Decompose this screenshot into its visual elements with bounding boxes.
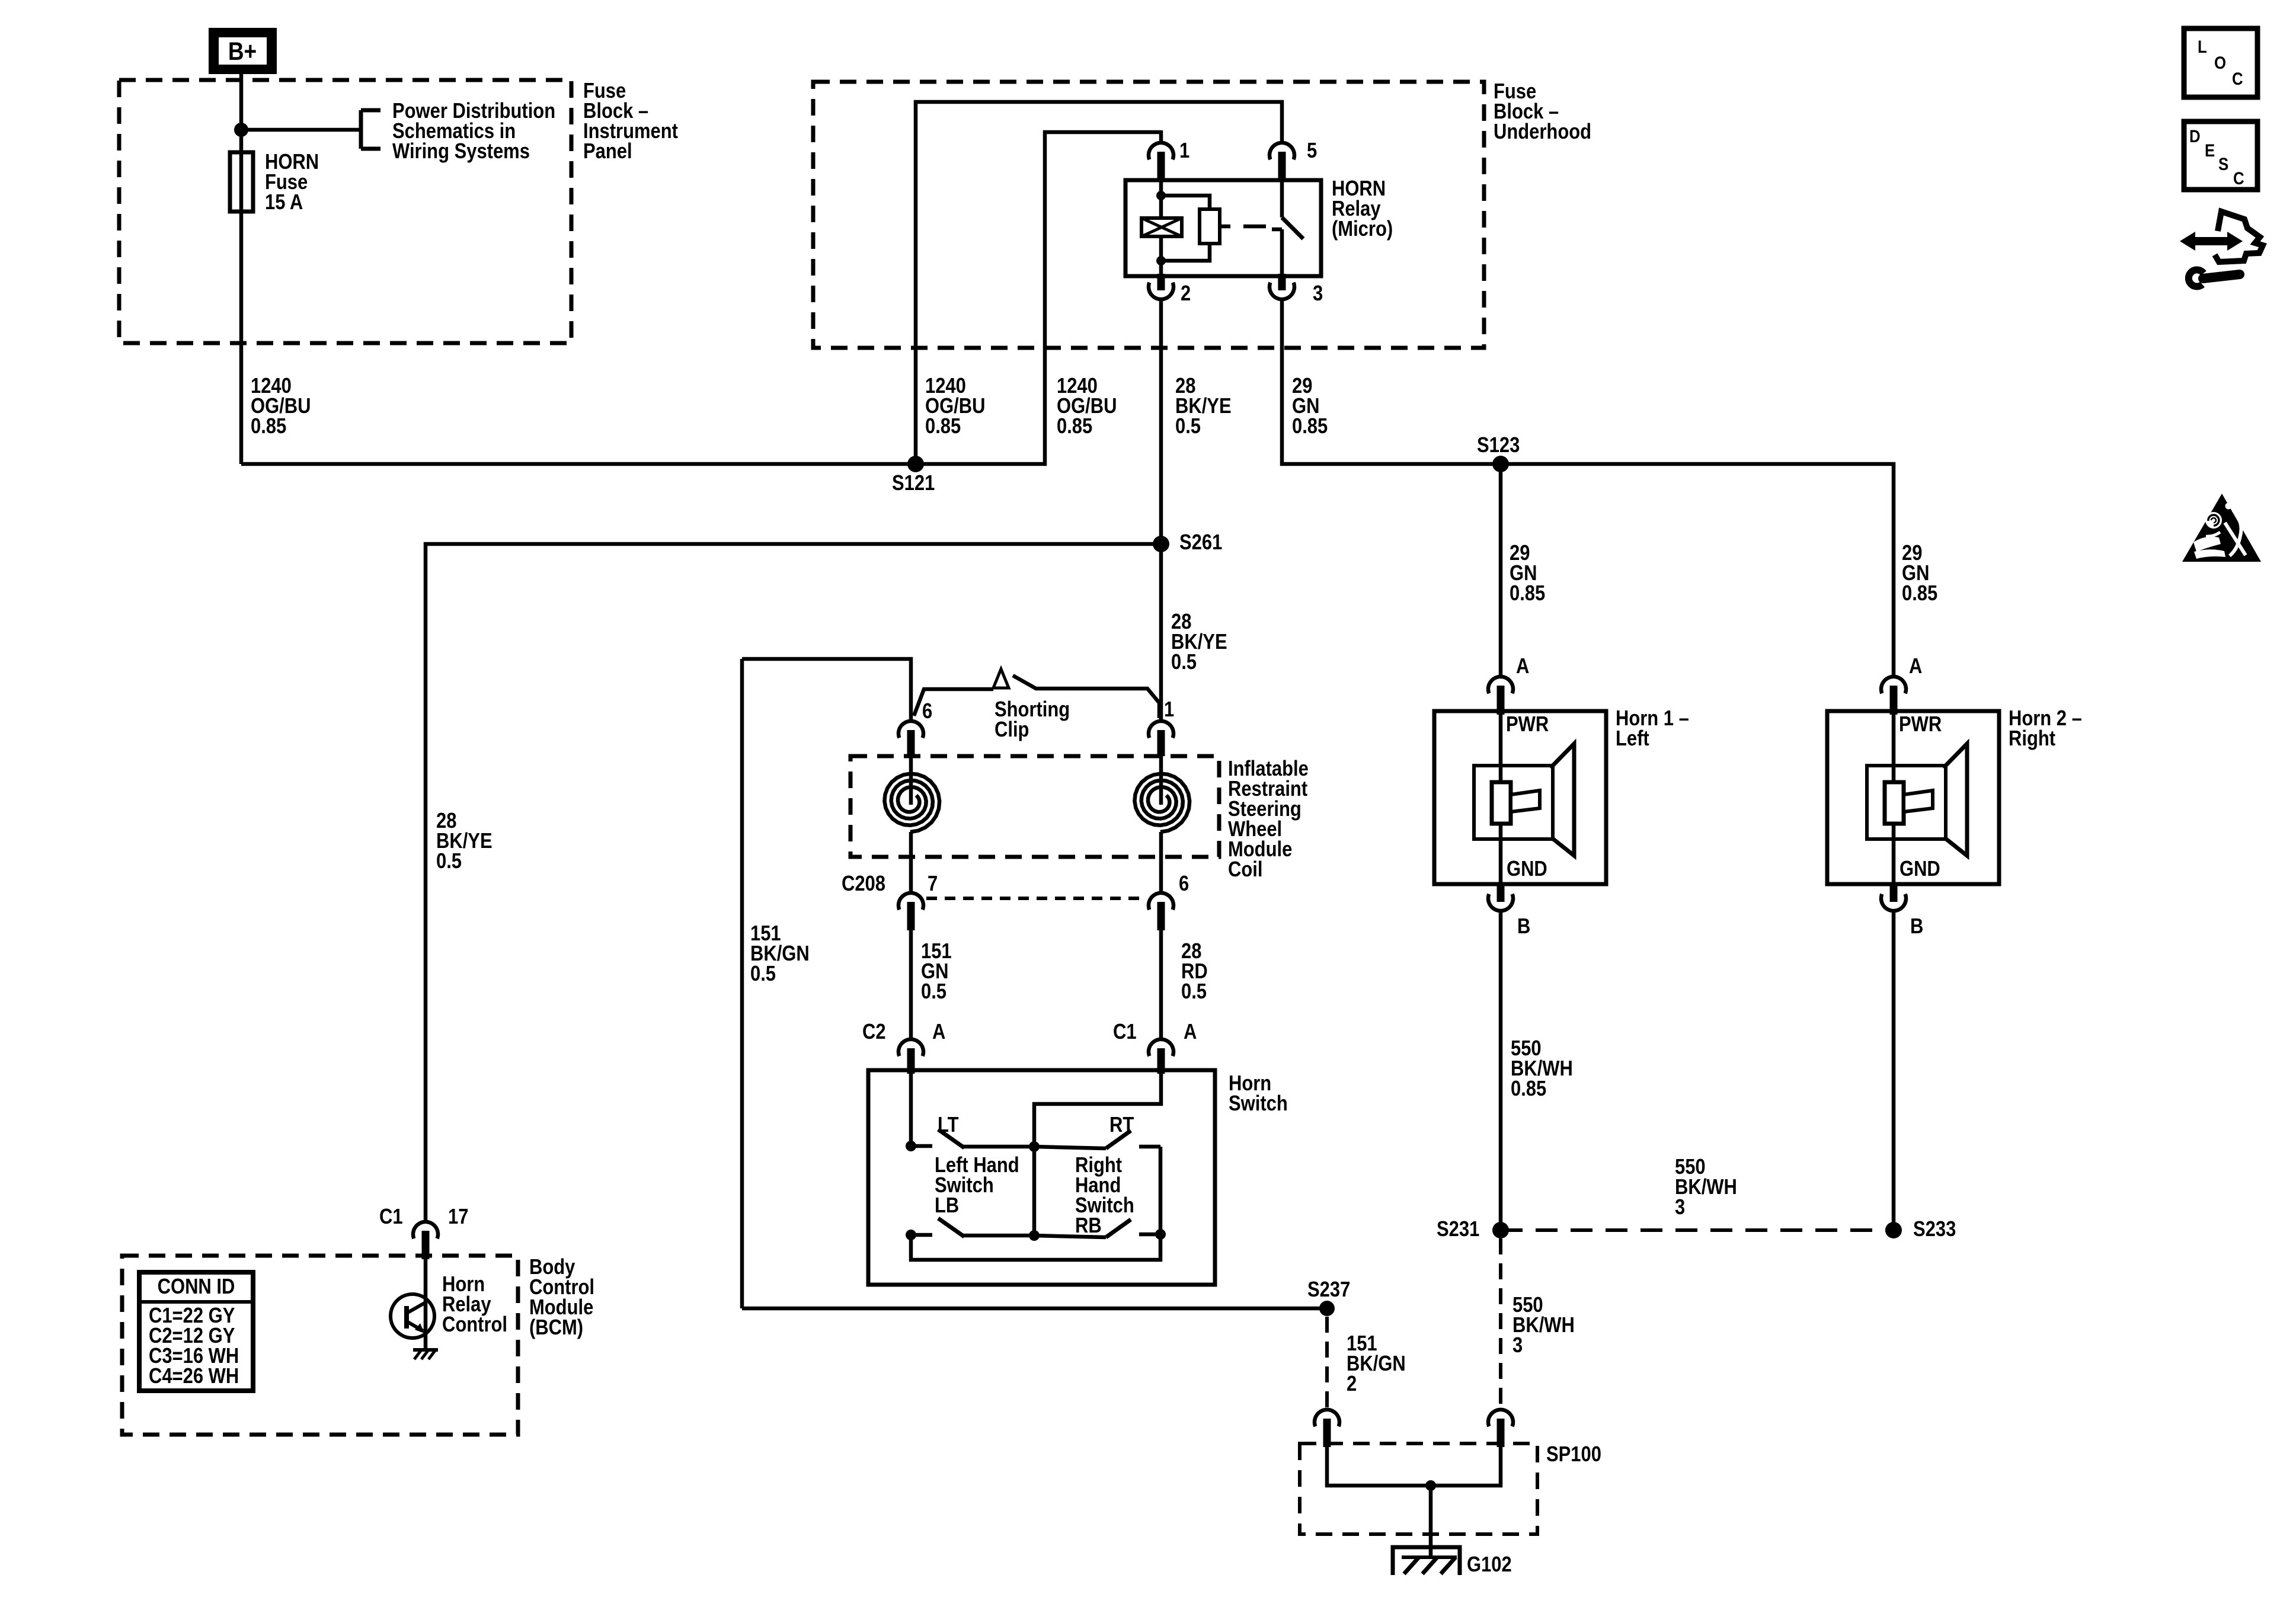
shorting clip actuator triangle: [993, 669, 1009, 688]
wire right coil to C208: [1159, 832, 1163, 895]
horn switch common return: [911, 1147, 1160, 1260]
wire relay pin2 down to S261: [1159, 299, 1163, 544]
svg-text:S261: S261: [1179, 531, 1222, 555]
svg-text:1: 1: [1164, 698, 1174, 722]
node RT junction: [1029, 1141, 1040, 1152]
svg-text:SP100: SP100: [1546, 1443, 1601, 1467]
wire through horn 2: [1892, 711, 1896, 884]
svg-text:D: D: [2189, 126, 2201, 146]
svg-text:G102: G102: [1467, 1553, 1512, 1577]
splice S261: [1153, 536, 1169, 552]
svg-text:C208: C208: [842, 872, 885, 896]
coil spiral left: [884, 774, 939, 832]
relay switch blade: [1282, 217, 1303, 239]
wire S261 down to shorting clip pin1: [1159, 544, 1163, 721]
relay connector pin 1: [1149, 143, 1173, 159]
relay U1 HORN relay box: [1125, 180, 1321, 276]
shorting clip left lead: [914, 689, 993, 716]
clip connector pin 1: [1149, 721, 1173, 738]
node coil top: [1156, 191, 1166, 200]
splice S237: [1319, 1301, 1335, 1316]
wire BCM internal: [424, 1243, 428, 1350]
wire S231 to S233 dashed: [1501, 1228, 1894, 1232]
node SP100 tap: [1425, 1480, 1436, 1491]
switch LT: [911, 1144, 932, 1148]
svg-text:6: 6: [922, 700, 932, 724]
wire S123 to horn2 branch: [1501, 464, 1894, 677]
icon LOC box: [2184, 28, 2257, 97]
svg-text:L: L: [2198, 37, 2207, 56]
splice pack SP100 connector right: [1488, 1410, 1513, 1426]
horn switch box: [868, 1070, 1215, 1285]
svg-text:GND: GND: [1507, 857, 1547, 881]
svg-text:6: 6: [1179, 872, 1189, 896]
wire SP100 to G102: [1429, 1486, 1433, 1557]
coil spiral right: [1134, 774, 1189, 832]
relay connector pin 2: [1149, 283, 1173, 299]
wire through horn 1: [1499, 711, 1503, 884]
wire C208-7 to C2: [909, 929, 913, 1039]
svg-text:S123: S123: [1477, 434, 1520, 457]
svg-text:17: 17: [448, 1205, 468, 1229]
node junction at B+ tap: [234, 123, 248, 137]
svg-text:C1: C1: [379, 1205, 403, 1229]
CONN ID table: [139, 1272, 253, 1391]
horn 1 connector A: [1488, 677, 1513, 693]
svg-text:PWR: PWR: [1899, 713, 1942, 737]
connector C1 pin 17 (BCM): [413, 1222, 438, 1238]
svg-text:1: 1: [1179, 139, 1189, 163]
svg-text:GND: GND: [1900, 857, 1940, 881]
splice pack SP100 dashed box: [1300, 1443, 1537, 1534]
switch RT: [1034, 1147, 1106, 1148]
wire left coil to C208: [909, 832, 913, 895]
relay parallel resistor branch top: [1161, 196, 1210, 209]
relay coil wire pin1 side: [1159, 180, 1163, 218]
svg-text:S121: S121: [892, 472, 935, 495]
inflatable restraint coil dashed box: [850, 756, 1219, 857]
relay actuator dashed link: [1243, 225, 1266, 229]
node LT pivot: [906, 1141, 916, 1151]
battery terminal B+: [209, 28, 277, 74]
horn 1 box: [1434, 711, 1606, 884]
icon connector end view outline: [2215, 212, 2263, 262]
wire C1 into switch: [1034, 1070, 1161, 1235]
clip connector pin 6: [898, 721, 923, 738]
relay switch pin5 lead: [1280, 180, 1284, 217]
relay armature tick: [1220, 225, 1230, 229]
connector C208 dashed line: [926, 897, 1146, 900]
wire horn1 B to S231: [1499, 911, 1503, 1230]
node coil bottom: [1156, 256, 1166, 265]
wire stub to relay pin 1: [1159, 130, 1163, 142]
wire relay pin3 down to S123: [1282, 299, 1501, 464]
icon wrench: [2189, 270, 2204, 286]
wire B+ feed down to bus: [239, 74, 244, 464]
connector C1 pin A: [1149, 1039, 1173, 1056]
horn 2 connector B: [1881, 894, 1906, 911]
horn 1 connector B: [1488, 894, 1513, 911]
splice S123: [1492, 456, 1509, 472]
horn 2 box: [1827, 711, 1999, 884]
svg-text:S237: S237: [1307, 1278, 1350, 1302]
svg-text:A: A: [1516, 655, 1529, 678]
horn 2 connector A: [1881, 677, 1906, 693]
relay connector pin 5: [1269, 143, 1294, 159]
svg-text:S231: S231: [1437, 1218, 1479, 1241]
relay coil wire to pin2: [1159, 236, 1163, 276]
fuse HORN 15A: [230, 152, 253, 212]
svg-text:C: C: [2233, 168, 2244, 188]
fuse block instrument panel dashed box: [119, 80, 571, 343]
wire riser S121 to relay pin5 route: [916, 102, 1282, 464]
connector C2 pin A: [898, 1039, 923, 1056]
svg-text:C2: C2: [862, 1020, 886, 1044]
shorting clip blade: [1013, 676, 1159, 718]
svg-text:7: 7: [928, 872, 938, 896]
switch RB: [1034, 1235, 1106, 1237]
wire S231 down dashed: [1499, 1238, 1502, 1410]
wire 151 BK/GN riser: [740, 659, 744, 1308]
fuse block underhood dashed box: [813, 82, 1484, 348]
svg-text:C: C: [2232, 69, 2243, 88]
wire horn2 B to S233: [1892, 911, 1896, 1230]
svg-text:C1: C1: [1113, 1020, 1137, 1044]
svg-text:5: 5: [1307, 139, 1317, 163]
relay coil element (box with X): [1141, 218, 1182, 236]
wire into left coil: [909, 756, 913, 805]
horn 2 speaker symbol: [1867, 766, 1946, 839]
power distribution bracket: [359, 110, 363, 149]
svg-text:3: 3: [1313, 282, 1323, 306]
svg-text:O: O: [2214, 53, 2226, 72]
horn 1 speaker symbol: [1474, 766, 1553, 839]
transistor Q1 horn relay driver: [391, 1294, 434, 1338]
svg-text:PWR: PWR: [1506, 713, 1549, 737]
svg-text:A: A: [1909, 655, 1922, 678]
connector C208 pin 6: [1149, 893, 1173, 910]
splice S121: [907, 456, 924, 472]
icon double arrow: [2192, 237, 2231, 245]
svg-text:E: E: [2205, 140, 2215, 160]
splice pack SP100 connector left: [1315, 1410, 1339, 1426]
wire C208-6 to C1: [1159, 929, 1163, 1039]
svg-text:B+: B+: [228, 37, 257, 65]
splice S231: [1492, 1222, 1509, 1238]
relay connector pin 3: [1269, 283, 1294, 299]
svg-text:LT: LT: [938, 1113, 959, 1137]
ground G102: [1393, 1547, 1460, 1575]
wire clip pin6 feed: [742, 659, 911, 721]
splice S233: [1885, 1222, 1902, 1238]
body control module dashed box: [122, 1256, 518, 1435]
icon DESC box: [2184, 121, 2257, 190]
switch LB: [911, 1233, 932, 1237]
node LB pivot: [906, 1230, 916, 1240]
svg-text:A: A: [932, 1020, 945, 1044]
svg-text:2: 2: [1181, 282, 1191, 306]
svg-text:S233: S233: [1913, 1218, 1956, 1241]
svg-text:CONN ID: CONN ID: [158, 1275, 235, 1299]
wire S261 left branch to BCM: [426, 544, 1161, 1222]
relay switch fixed contact: [1272, 228, 1282, 232]
relay parallel resistor branch bottom: [1161, 244, 1210, 261]
node RB junction: [1029, 1230, 1040, 1241]
svg-text:C1=22 GYC2=12 GYC3=16 WHC4=26: C1=22 GYC2=12 GYC3=16 WHC4=26 WH: [149, 1304, 239, 1388]
wire S123 down to horn1: [1499, 464, 1503, 677]
svg-text:B: B: [1910, 915, 1923, 939]
wire to S237: [742, 1307, 1327, 1311]
warning triangle SIR: [2182, 494, 2261, 562]
wire tap to power distribution bracket: [241, 128, 361, 132]
svg-text:RT: RT: [1109, 1113, 1134, 1137]
svg-text:A: A: [1184, 1020, 1197, 1044]
SP100 internal bus: [1327, 1443, 1501, 1486]
wire into right coil: [1159, 756, 1163, 805]
svg-text:S: S: [2218, 154, 2228, 174]
wire bus fuse to S121 and riser: [241, 132, 1161, 464]
node RB output: [1155, 1229, 1166, 1240]
connector C208 pin 7: [898, 893, 923, 910]
wire S237 down dashed: [1325, 1317, 1329, 1410]
wire C2 into switch: [909, 1070, 913, 1146]
ground (BCM internal): [413, 1348, 438, 1352]
relay resistor: [1200, 209, 1220, 244]
svg-text:B: B: [1517, 915, 1530, 939]
